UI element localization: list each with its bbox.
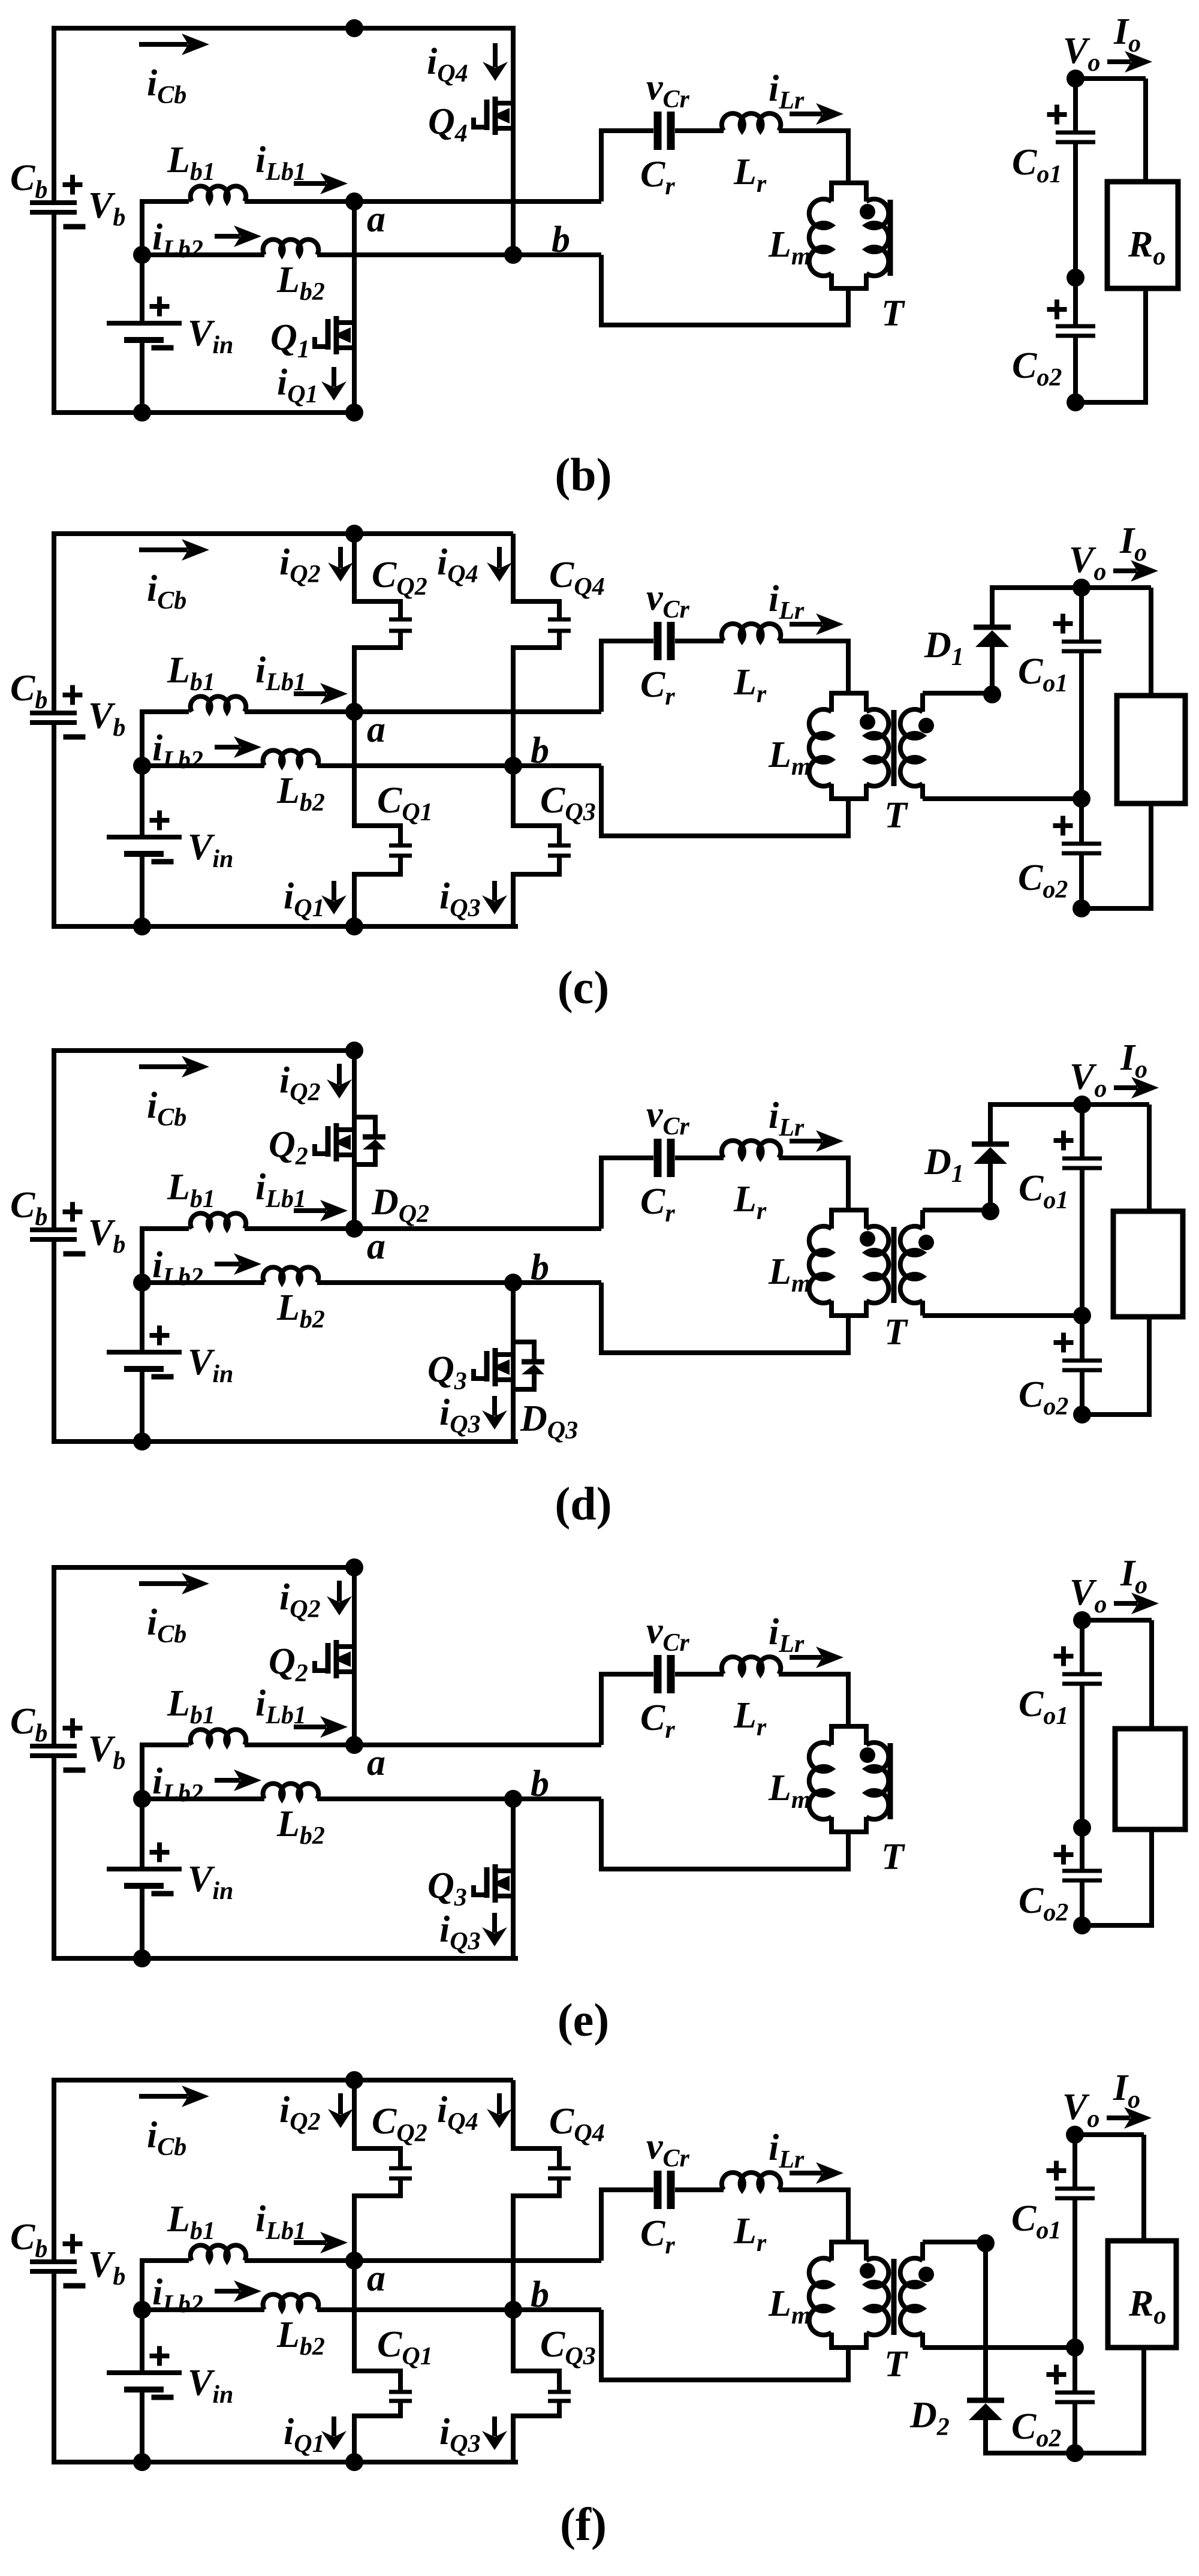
label T (e) [881,1837,905,1877]
capacitor Co1 (d) [1019,1105,1102,1316]
wire Vo rail (e) [1080,1618,1152,1623]
node dot output bottom (c) [1073,899,1090,917]
wire left rail (e) [54,1565,518,1961]
body diode DQ3 (d) [513,1342,578,1445]
current arrow iLb2 (d) [152,1245,261,1291]
current arrow iLb2 (f) [152,2272,261,2318]
node dot CQ1 bottom (c) [345,917,363,935]
label CQ4 (c) [549,555,605,601]
node dot output bottom (f) [1066,2444,1084,2462]
inductor Lb2 (f) [142,2294,601,2361]
inductor Lb1 (d) [140,1167,601,1229]
svg-text:T: T [884,795,908,836]
transformer T primary (b) [860,183,888,288]
current arrow iQ1 (b) [277,362,347,408]
transformer T primary (c) [860,693,888,799]
wire secondary bottom / mid rail (c) [923,796,1081,801]
current arrow iLb1 (b) [255,140,348,194]
svg-text:(b): (b) [555,449,611,501]
transformer core (c) [891,710,897,786]
node dot Vin/Lb2 junction (b) [133,246,151,264]
label CQ2 (f) [372,2101,427,2147]
svg-text:a: a [367,709,385,750]
label CQ4 (f) [549,2101,605,2147]
inductor Lb1 (c) [140,650,601,712]
wire tank bottom (c) [601,833,851,838]
wire load bottom (e) [1149,1829,1154,1925]
node dot output bottom (e) [1073,1916,1091,1934]
capacitor Co2 (b) [1012,278,1095,402]
wire left rail (c) [54,531,518,929]
transformer core (e) [888,1743,893,1819]
current arrow iCb (f) [139,2086,209,2161]
wire tank right corner (e) [846,1672,851,1726]
transformer T secondary (c) [900,693,934,799]
wire load top (c) [1149,588,1153,696]
inductor Lr (f) [722,2172,848,2257]
wire output bottom rail (e) [1082,1923,1154,1928]
node a (e) [345,1736,385,1783]
node dot Vin bottom (d) [133,1433,151,1450]
inductor Lm (b) [768,183,869,288]
capacitor Co2 (f) [1011,2348,1095,2453]
wire left rail (b) [54,26,513,415]
wire load bottom (b) [1143,288,1148,402]
current arrow iQ3 (f) [439,2412,507,2458]
transistor Q4 (b) [428,26,513,255]
node a (b) [345,192,385,240]
caption (f) [560,2498,607,2550]
wire output bottom rail (c) [1081,906,1153,911]
wire load top (e) [1149,1620,1154,1729]
wire tank left edge (f) [599,2187,604,2382]
load resistor (e) [1115,1729,1185,1829]
transformer core (d) [891,1227,897,1303]
wire load top (b) [1143,79,1148,182]
node a (c) [345,703,385,750]
wire load top (f) [1141,2135,1146,2241]
battery Vin (c) [107,709,233,929]
wire Vo rail (f) [1073,2132,1144,2137]
wire tank bottom (f) [601,2378,851,2382]
wire tank left edge (c) [599,639,604,838]
current arrow iLb1 (c) [255,650,348,705]
wire load bottom (d) [1147,1317,1152,1415]
diode D1 (d) [924,1102,1009,1210]
current arrow iLb2 (c) [152,728,261,774]
inductor Lb2 (e) [142,1783,601,1850]
wire tank right corner (d) [846,1155,851,1210]
node dot output bottom (b) [1067,393,1084,411]
inductor Lr (e) [722,1657,848,1741]
node dot Vin/Lb2 junction (f) [133,2301,151,2319]
transistor Q3 (d) [427,1283,513,1442]
node dot mid (c) [1073,790,1090,808]
load resistor (c) [1117,696,1185,804]
transistor Q2 (d) [269,1048,354,1229]
transformer core (b) [888,200,893,276]
transformer T primary (e) [860,1726,888,1832]
capacitor Co1 (e) [1019,1620,1102,1828]
current arrow iQ4 (c) [437,542,512,588]
inductor Lm (e) [768,1726,869,1832]
current arrow iQ3 (d) [439,1392,507,1439]
wire output bottom rail (f) [986,2451,1146,2455]
wire transformer feed (e) [846,1674,851,1869]
current arrow iCb (b) [139,34,209,109]
load resistor Ro (b) [1107,182,1178,288]
wire tank bottom (d) [601,1350,851,1355]
wire secondary top (d) [923,1208,990,1212]
current arrow iQ1 (f) [284,2412,347,2458]
inductor Lr (d) [722,1140,848,1225]
wire tank bottom (b) [601,323,851,327]
capacitor Cb (d) [10,1185,125,1259]
capacitor CQ3 (c) [511,766,571,926]
battery Vin (d) [107,1226,233,1444]
wire Vo rail (d) [990,1102,1149,1107]
wire output bottom rail (d) [1082,1412,1152,1417]
node dot top rail (d) [345,1042,363,1060]
wire left rail (d) [54,1048,518,1444]
wire left rail (f) [54,2078,518,2464]
node dot Vin/Lb2 junction (c) [133,757,151,775]
current arrow iQ3 (e) [439,1909,507,1955]
wire secondary bottom / mid rail (f) [923,2345,1075,2350]
capacitor Cb (f) [10,2217,125,2291]
current arrow iLr (c) [769,579,843,635]
node dot Vin bottom (f) [133,2453,151,2471]
capacitor CQ2 (c) [352,534,412,712]
node dot mid (e) [1073,1819,1091,1837]
current arrow iLb2 (b) [152,217,261,263]
node dot CQ1 bottom (f) [345,2453,363,2471]
svg-text:a: a [367,199,385,240]
label CQ1 (c) [377,780,433,826]
node dot top rail (b) [345,19,363,37]
current arrow iQ3 (c) [439,876,507,922]
diode D1 (c) [924,585,1011,693]
node dot output bottom (d) [1073,1406,1091,1424]
svg-text:b: b [531,1764,549,1804]
capacitor Cb (e) [10,1701,125,1775]
inductor Lr (b) [722,113,848,198]
node dot top rail (f) [345,2071,363,2089]
current arrow iQ2 (f) [279,2090,353,2136]
inductor Lm (c) [768,693,869,799]
caption (c) [558,961,610,1013]
wire tank left edge (b) [599,128,604,327]
node dot mid (b) [1067,269,1084,287]
node a (f) [345,2252,385,2299]
capacitor CQ1 (f) [352,2261,412,2462]
svg-text:b: b [531,2274,549,2315]
label CQ3 (f) [540,2324,596,2370]
current arrow iLr (f) [769,2127,843,2184]
body diode DQ2 (d) [354,1117,429,1228]
current arrow iLb1 (d) [255,1167,348,1221]
caption (d) [555,1477,611,1530]
capacitor CQ3 (f) [511,2310,571,2462]
wire output bottom rail (b) [1076,400,1148,405]
capacitor Cr (d) [601,1094,724,1227]
capacitor Cr (e) [601,1611,724,1744]
wire transformer feed (b) [846,131,851,325]
svg-text:T: T [884,1312,908,1353]
current arrow iQ1 (c) [284,876,347,922]
node dot Vin bottom (c) [133,917,151,935]
inductor Lb2 (c) [142,750,601,817]
wire secondary bottom / mid rail (d) [923,1313,1082,1318]
inductor Lb1 (f) [140,2199,601,2261]
svg-text:T: T [884,2344,908,2385]
current arrow iCb (d) [139,1056,209,1131]
node b (c) [504,730,549,775]
transistor Q3 (e) [427,1799,513,1958]
current arrow iLb1 (f) [255,2199,348,2253]
current arrow iQ2 (d) [279,1060,352,1106]
current arrow iQ2 (e) [279,1577,352,1623]
inductor Lb1 (e) [140,1683,601,1745]
wire transformer feed (c) [846,641,851,836]
node b (b) [504,219,570,264]
wire Vo rail (b) [1073,76,1146,81]
svg-text:T: T [881,1837,905,1877]
node Vo (f) [1062,2068,1140,2144]
wire tank left edge (e) [599,1672,604,1871]
capacitor Cr (b) [601,67,724,200]
wire secondary top (c) [923,691,992,696]
current arrow iCb (e) [139,1573,209,1648]
svg-text:a: a [367,1226,385,1267]
svg-text:b: b [552,219,570,260]
label T (f) [884,2344,908,2385]
current arrow iLb2 (e) [152,1761,261,1807]
capacitor CQ4 (f) [511,2080,571,2310]
svg-text:(e): (e) [558,1994,610,2046]
transformer T secondary (d) [900,1210,934,1316]
load resistor Ro (f) [1108,2241,1176,2348]
current arrow iLr (e) [769,1612,843,1668]
wire tank bottom (e) [601,1867,851,1871]
caption (b) [555,449,611,501]
battery Vin (e) [107,1743,233,1961]
svg-text:b: b [531,1247,549,1288]
current arrow Io (c) [1113,560,1158,582]
wire tank right corner (b) [846,128,851,183]
transformer T primary (d) [860,1210,888,1316]
label CQ3 (c) [540,780,596,826]
svg-text:T: T [881,293,905,334]
svg-text:(c): (c) [558,961,610,1013]
node Vo (e) [1070,1553,1147,1629]
wire load top (d) [1147,1105,1152,1211]
transformer core (f) [891,2259,897,2335]
inductor Lr (c) [722,624,848,708]
capacitor Co2 (c) [1018,799,1101,908]
node dot mid (f) [1066,2339,1084,2357]
capacitor CQ2 (f) [352,2080,412,2261]
wire load bottom (c) [1149,804,1153,908]
wire tank left edge (d) [599,1155,604,1355]
svg-text:a: a [367,2258,385,2299]
inductor Lb2 (b) [142,239,601,306]
diode D2 (f) [909,2242,1004,2455]
current arrow iQ4 (b) [427,41,508,88]
node dot diode junction (c) [983,685,1001,703]
caption (e) [558,1994,610,2046]
capacitor Cb (c) [10,668,125,742]
node Vo (c) [1069,520,1147,597]
node b (d) [504,1247,549,1292]
battery Vin (b) [107,199,233,415]
current arrow iQ2 (c) [279,542,353,588]
inductor Lm (d) [768,1210,869,1316]
node dot Vin bottom (b) [133,404,151,422]
node dot top rail (e) [345,1558,363,1576]
wire transformer feed (f) [846,2190,851,2380]
label T (d) [884,1312,908,1353]
capacitor Co1 (b) [1012,79,1095,278]
capacitor Cr (c) [601,577,724,711]
current arrow Io (f) [1107,2107,1152,2129]
wire secondary top (f) [923,2240,986,2244]
node Vo (d) [1070,1037,1147,1114]
capacitor Co1 (c) [1018,588,1101,799]
wire load bottom (f) [1141,2348,1146,2453]
node b (f) [504,2274,549,2319]
capacitor Cr (f) [601,2126,724,2259]
transformer T primary (f) [860,2242,888,2348]
inductor Lb1 (b) [140,140,601,201]
capacitor Co2 (d) [1019,1316,1102,1421]
label CQ1 (f) [377,2324,433,2370]
svg-text:a: a [367,1743,385,1783]
node Vo (b) [1063,11,1141,88]
svg-text:b: b [531,730,549,771]
current arrow iLr (b) [769,68,843,125]
transistor Q1 (b) [270,201,354,413]
current arrow Io (b) [1107,51,1152,73]
label T (c) [884,795,908,836]
capacitor CQ1 (c) [352,712,412,926]
current arrow iCb (c) [139,539,209,615]
inductor Lb2 (d) [142,1267,601,1334]
node dot Vin/Lb2 junction (d) [133,1274,151,1292]
current arrow Io (e) [1114,1593,1159,1614]
wire Vo rail (c) [992,585,1151,590]
capacitor Co2 (e) [1019,1828,1102,1927]
node dot Q1 bottom (b) [345,404,363,422]
wire transformer feed (d) [846,1158,851,1353]
label T (b) [881,293,905,334]
wire tank right corner (c) [846,639,851,693]
load resistor (d) [1113,1211,1183,1317]
node dot mid (d) [1073,1307,1091,1325]
svg-text:(f): (f) [560,2498,607,2550]
inductor Lm (f) [768,2242,869,2348]
svg-text:(d): (d) [555,1477,611,1530]
current arrow iQ4 (f) [437,2090,512,2136]
label CQ2 (c) [372,555,427,601]
capacitor Co1 (f) [1011,2135,1095,2348]
node a (d) [345,1220,385,1267]
wire tank right corner (f) [846,2187,851,2242]
capacitor CQ4 (c) [511,534,571,766]
node dot diode junction (d) [981,1202,999,1220]
battery Vin (f) [107,2258,233,2464]
node dot top rail (c) [345,525,363,543]
node dot Vin/Lb2 junction (e) [133,1790,151,1808]
current arrow Io (d) [1114,1077,1159,1099]
transformer T secondary (f) [900,2242,934,2348]
current arrow iLb1 (e) [255,1683,348,1738]
current arrow iLr (d) [769,1096,843,1152]
node dot Vin bottom (e) [133,1949,151,1967]
node dot diode junction (f) [977,2234,995,2252]
transistor Q2 (e) [269,1565,354,1745]
node b (e) [504,1764,549,1808]
capacitor Cb (b) [10,158,125,231]
